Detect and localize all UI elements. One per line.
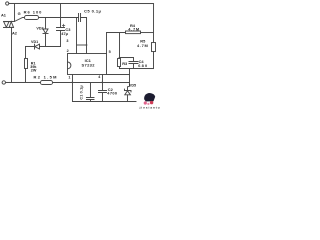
svg-text:VD2: VD2 xyxy=(36,26,43,30)
svg-text:C1 0.1μ: C1 0.1μ xyxy=(80,85,84,100)
svg-text:4.7M: 4.7M xyxy=(137,43,148,48)
svg-text:VD1: VD1 xyxy=(31,40,38,44)
svg-text:R3: R3 xyxy=(122,61,128,66)
svg-text:2: 2 xyxy=(67,49,69,53)
svg-text:5: 5 xyxy=(109,50,111,54)
svg-text:680: 680 xyxy=(138,63,147,68)
svg-text:G: G xyxy=(18,11,21,16)
svg-text:4.7M: 4.7M xyxy=(128,26,139,31)
svg-text:3: 3 xyxy=(66,39,68,43)
svg-text:C5 0.1μ: C5 0.1μ xyxy=(84,8,102,13)
svg-text:4700: 4700 xyxy=(107,91,117,96)
svg-text:A2: A2 xyxy=(12,30,18,35)
svg-text:VD5: VD5 xyxy=(129,83,136,87)
svg-text:R2 1.5M: R2 1.5M xyxy=(33,75,57,80)
svg-text:1: 1 xyxy=(68,75,70,79)
svg-text:A1: A1 xyxy=(1,12,7,17)
svg-text:R6 100: R6 100 xyxy=(24,10,43,15)
svg-text:jiexiantu: jiexiantu xyxy=(139,106,160,110)
svg-text:S7232: S7232 xyxy=(81,63,95,68)
svg-text:2W: 2W xyxy=(31,68,37,72)
svg-text:47μ: 47μ xyxy=(61,31,68,36)
